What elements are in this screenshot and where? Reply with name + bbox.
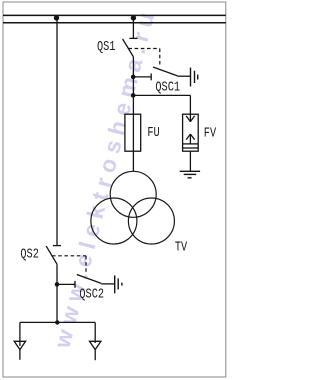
wire through fuse xyxy=(132,114,134,151)
earthing switch QSC2 xyxy=(57,275,115,288)
node bottom junction xyxy=(55,320,59,324)
svg-text:QS2: QS2 xyxy=(20,246,38,262)
node FV branch tap xyxy=(131,93,136,98)
wire fuse to TV xyxy=(132,151,134,171)
wire FV to ground xyxy=(189,151,191,171)
arrester FV xyxy=(183,114,199,151)
wire QS1 to fuse xyxy=(132,57,134,114)
feeder arrow right xyxy=(90,322,101,360)
wire left rail bus to QS2 xyxy=(56,18,58,246)
ground QSC1 (sideways) xyxy=(191,68,198,87)
earthing switch QSC1 xyxy=(133,67,190,80)
svg-text:www.elektroshema.ru: www.elektroshema.ru xyxy=(49,4,161,351)
interlock link QS1-QSC1 (dashed) xyxy=(128,49,159,67)
fuse FU xyxy=(125,114,141,151)
ground QSC2 (sideways) xyxy=(115,275,122,293)
svg-text:FV: FV xyxy=(204,125,217,141)
ground below FV xyxy=(180,171,200,178)
svg-text:QS1: QS1 xyxy=(97,39,115,55)
wire bottom feeder bus xyxy=(20,321,95,323)
wire bus to QS1 xyxy=(132,18,134,38)
border frame xyxy=(3,2,226,377)
busbar line bottom xyxy=(3,22,226,24)
disconnector QS2 xyxy=(46,246,61,265)
svg-text:QSC1: QSC1 xyxy=(155,79,180,95)
wire QS2 down xyxy=(56,264,58,322)
disconnector QS1 xyxy=(123,38,138,56)
watermark www.elektroshema.ru xyxy=(49,4,161,351)
node QSC1 tap xyxy=(131,75,136,80)
interlock link QS2-QSC2 (dashed) xyxy=(52,256,86,275)
node bus tap left xyxy=(54,15,59,20)
node QSC2 tap xyxy=(55,282,60,287)
node bus tap right xyxy=(131,15,136,20)
svg-text:TV: TV xyxy=(175,239,188,255)
wire tap to FV xyxy=(133,95,190,114)
svg-text:QSC2: QSC2 xyxy=(79,286,104,302)
busbar line top xyxy=(3,14,226,16)
feeder arrow left xyxy=(14,322,25,359)
transformer TV (three windings) xyxy=(91,171,174,244)
svg-text:FU: FU xyxy=(147,125,159,141)
